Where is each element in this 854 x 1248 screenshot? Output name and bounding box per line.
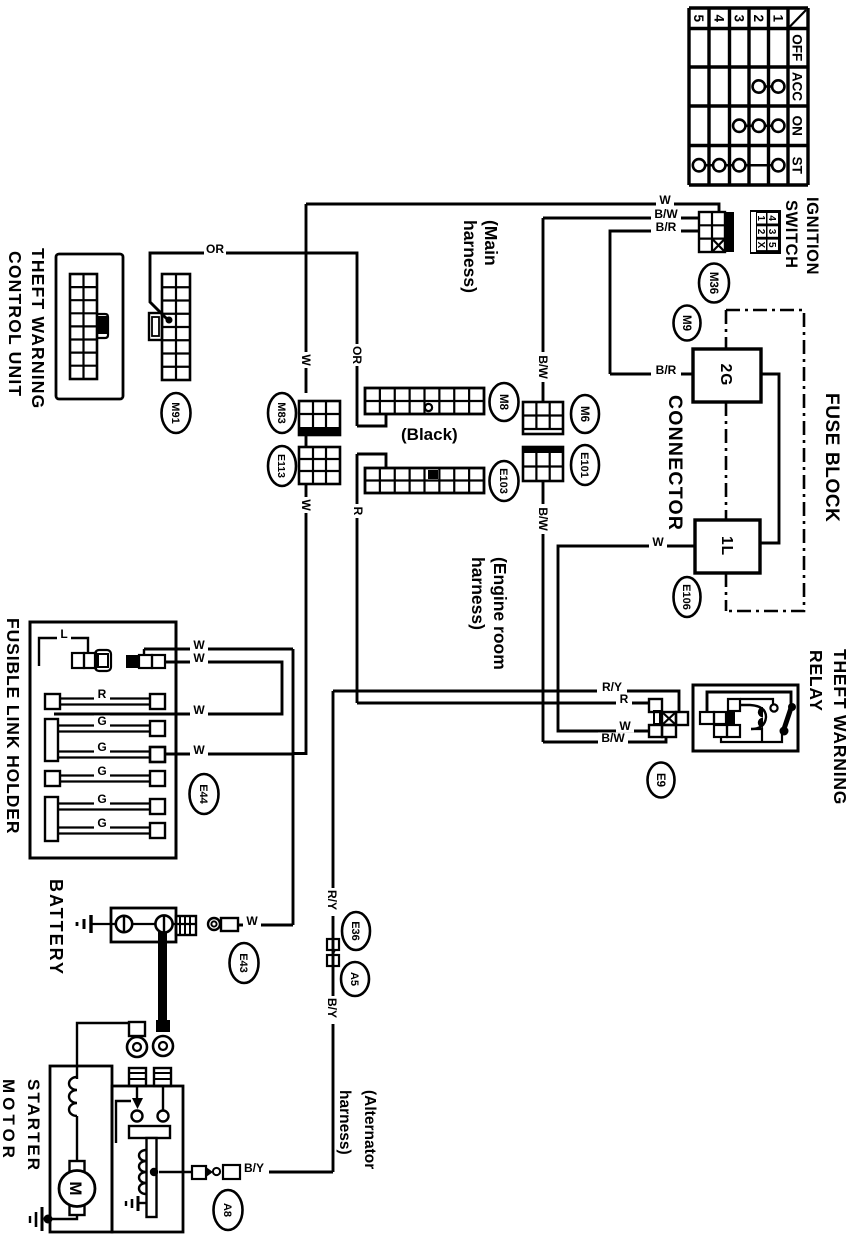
connector label E101 [571,445,599,485]
svg-text:E44: E44 [197,784,209,804]
svg-text:M91: M91 [169,402,181,423]
wire R/Y to theft warning relay [333,691,679,712]
svg-text:3: 3 [731,14,746,22]
fuse block dash-dot boundary [726,310,804,611]
relay coil [740,705,766,729]
svg-text:B/W: B/W [654,207,678,221]
svg-text:E43: E43 [237,953,249,973]
starter solenoid box [112,1086,183,1232]
ignition switch connector M36 grid [699,212,725,252]
wire B/W rail through M6 [542,218,545,402]
svg-text:5: 5 [766,242,777,248]
connector label E113 [268,446,296,486]
connector E101 grid [523,447,563,481]
connector label M83 [268,393,296,433]
svg-text:2G: 2G [717,364,734,387]
solenoid plunger [129,1126,170,1138]
inline connector E36/A5 on R/Y wire [327,939,339,950]
connector M91 pin dot [166,317,173,324]
svg-text:B/R: B/R [656,220,677,234]
ON contacts rows 1-2-3 [739,124,778,127]
fusible link G2 [150,747,165,762]
svg-text:G: G [97,792,106,806]
svg-text:W: W [659,193,671,207]
table diagonal header cell [789,10,806,28]
battery ground [89,915,92,933]
connector E103 notch [357,454,386,468]
relay internal pin squares [728,699,740,711]
wire W1 from holder to junction [143,649,145,655]
svg-text:ST: ST [790,157,805,175]
wire W main harness rail [305,204,308,393]
connector label E106 [674,577,701,617]
svg-text:W: W [193,703,205,717]
svg-text:(Engine room: (Engine room [490,557,510,670]
svg-text:THEFT WARNING: THEFT WARNING [830,649,850,805]
svg-text:5: 5 [691,14,706,22]
connector label M6 [571,395,599,433]
svg-text:W: W [652,535,664,549]
connector label A8 [214,1190,243,1230]
svg-text:R/Y: R/Y [325,890,339,910]
connector M8 pin circle [425,404,432,411]
svg-text:OFF: OFF [790,34,805,61]
battery cable lug [156,1020,170,1032]
svg-text:E103: E103 [497,468,509,494]
svg-text:(Alternator: (Alternator [361,1090,378,1169]
svg-text:ACC: ACC [790,72,805,101]
starter motor ground [41,1207,44,1231]
connector label E43 [230,943,259,983]
fuse 1L box [695,520,760,573]
relay internal bus wire [721,733,782,742]
svg-text:M8: M8 [497,394,509,411]
wire R from E103 to relay [356,454,359,703]
svg-text:RELAY: RELAY [806,650,826,712]
svg-text:1L: 1L [718,536,735,556]
solenoid M terminal hatched [129,1068,146,1086]
svg-text:2: 2 [751,14,766,22]
ignition switch contact table [806,8,809,185]
connector M91 key tab [149,313,162,340]
ST contacts rows 1,3,4,5 [699,164,778,167]
relay connector E9 squares [649,699,662,712]
connector M83 grid [299,401,340,435]
svg-text:B/R: B/R [656,363,677,377]
svg-text:B/W: B/W [536,355,550,379]
svg-text:3: 3 [766,229,777,235]
wire B/W from ignition switch [543,217,699,220]
svg-text:E9: E9 [654,773,666,787]
svg-text:E36: E36 [349,921,361,941]
svg-text:M9: M9 [680,315,692,331]
svg-text:E113: E113 [275,454,287,478]
solenoid pull-in coil [139,1150,146,1194]
svg-text:harness): harness) [336,1090,353,1155]
inline connector on B/Y wire [223,1165,240,1179]
wire OR from M91 to M8 [206,253,357,426]
battery internal conductor [92,923,196,925]
svg-text:THEFT WARNING: THEFT WARNING [28,248,48,409]
svg-text:W: W [193,638,205,652]
wire B/R from ignition switch [610,231,699,374]
wire M to ground [48,1215,77,1219]
wire W from ignition switch [306,204,719,212]
svg-text:X: X [755,241,766,248]
fusible link L [39,638,88,666]
svg-text:E106: E106 [680,584,692,610]
svg-text:M6: M6 [578,406,590,422]
svg-text:M: M [66,1181,85,1195]
battery cable ring terminal [153,1036,173,1056]
svg-text:A8: A8 [221,1203,233,1217]
wire B/W to theft warning relay [543,737,666,742]
svg-text:W: W [299,354,313,366]
svg-text:CONTROL UNIT: CONTROL UNIT [5,251,25,397]
svg-text:harness): harness) [460,220,480,293]
connector label M9 [674,306,701,341]
solenoid contact from B terminal [162,1086,164,1110]
svg-text:SWITCH: SWITCH [782,200,800,269]
svg-text:G: G [97,740,106,754]
svg-text:R: R [351,507,365,516]
svg-text:B/Y: B/Y [325,998,339,1018]
svg-text:CONNECTOR: CONNECTOR [664,395,686,531]
wire B/W rail from E101 to relay [542,481,545,742]
svg-text:W: W [193,651,205,665]
wire R to theft warning relay [357,702,649,705]
relay connector E9 crossed cell [662,712,676,725]
connector label M36 [699,264,729,303]
wire from 2G to 1L [760,374,779,543]
svg-text:G: G [97,714,106,728]
wire W rail to fusible link [293,484,306,754]
fusible link R [150,694,165,709]
relay contact arm [788,703,796,711]
motor field coil [69,1077,77,1116]
svg-text:(Black): (Black) [401,425,458,444]
wire W4 from holder [165,753,293,756]
wire B/Y down to starter solenoid [240,1171,333,1174]
fusible link W (black pin) [152,655,165,668]
starter motor box [50,1066,112,1232]
svg-text:4: 4 [711,14,726,22]
solenoid coil ground [138,1202,146,1204]
connector label M91 [162,393,191,433]
control unit connector grid [70,274,97,379]
connector M8 notch [357,414,386,426]
wire W from fuse 1L [558,546,695,731]
svg-text:A5: A5 [348,972,360,986]
svg-text:G: G [97,816,106,830]
theft warning relay box [693,685,798,751]
svg-text:E101: E101 [578,452,590,478]
connector E11 grid [299,447,340,484]
fusible link G4 [150,799,165,814]
connector E103 body [365,468,484,493]
wire coil to M [76,1116,78,1161]
ACC contacts rows 1-2 [759,85,779,88]
wire W to battery [238,924,293,927]
svg-text:BATTERY: BATTERY [46,879,66,976]
svg-text:MOTOR: MOTOR [0,1079,18,1162]
motor feed ring terminal [129,1022,145,1036]
relay internal wire coil to contact bus [751,729,762,742]
solenoid B terminal hatched [154,1068,171,1086]
fusible link G3 [150,771,165,786]
wire from motor ring terminal to motor coil [77,1023,129,1079]
theft warning control unit box [56,254,123,399]
connector M36 crossed cell [712,239,725,252]
svg-text:1: 1 [755,215,766,221]
svg-text:IGNITION: IGNITION [803,197,821,275]
battery terminal connector [221,918,238,931]
fusible link holder box [30,622,176,858]
svg-text:FUSE BLOCK: FUSE BLOCK [821,393,842,523]
connector label A5 [341,962,369,996]
fusible link G1 [150,721,165,736]
fusible link G5 [150,823,165,838]
wire B/R into fuse 2G [610,373,693,376]
connector M6 grid [523,402,563,434]
svg-text:2: 2 [755,229,766,235]
battery positive thick cable [158,932,167,1022]
solenoid contact bridge wire [116,1101,131,1143]
svg-text:1: 1 [770,14,785,22]
control unit key tab [97,314,108,338]
svg-text:harness): harness) [468,557,488,630]
svg-text:(Main: (Main [481,220,501,266]
svg-text:B/W: B/W [536,507,550,531]
connector label E44 [190,774,219,814]
connector label E36 [342,912,370,950]
svg-text:FUSIBLE LINK HOLDER: FUSIBLE LINK HOLDER [3,618,23,834]
svg-text:R: R [620,692,629,706]
fusible link G1-G2 bridge bar [45,719,58,761]
solenoid contact from M terminal [136,1086,138,1098]
relay fixed contact [770,704,777,711]
starter motor armature M [70,1161,85,1172]
battery negative terminal [116,916,132,932]
fusible link G4-G5 bridge bar [45,797,58,841]
battery clamp hatched box [176,916,196,935]
svg-text:B/W: B/W [601,731,625,745]
connector label M8 [490,383,519,421]
svg-text:M83: M83 [275,402,287,423]
svg-text:ON: ON [790,116,805,136]
svg-text:L: L [60,627,67,641]
svg-text:OR: OR [206,242,224,256]
battery positive terminal [155,915,172,932]
battery box [111,908,176,942]
fuse 2G box [693,349,761,402]
svg-text:STARTER: STARTER [24,1079,43,1172]
wire R/Y rail [332,691,335,1172]
relay wire from pin to contact arm [707,692,791,711]
svg-text:W: W [299,499,313,511]
connector label E103 [490,461,519,501]
svg-text:B/Y: B/Y [244,1161,264,1175]
connector E103 pin square [428,470,438,479]
svg-text:OR: OR [350,346,364,364]
wire W2 jumper [54,662,282,714]
connector label E9 [648,763,675,798]
svg-text:G: G [97,764,106,778]
ignition switch pin-number connector [750,210,781,254]
connector M91 grid [162,274,190,380]
svg-text:4: 4 [766,215,777,221]
svg-text:M36: M36 [707,272,719,294]
svg-text:W: W [246,914,258,928]
svg-text:W: W [193,743,205,757]
wire W battery rail [292,649,295,925]
connector M8 body [365,388,484,414]
svg-text:R: R [98,687,107,701]
